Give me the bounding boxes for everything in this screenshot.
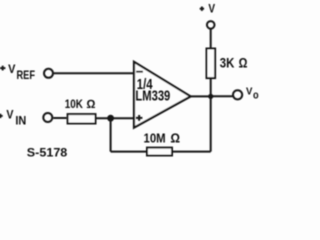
svg-text:Ω: Ω xyxy=(170,131,180,146)
label +VREF xyxy=(0,66,5,71)
op-amp U1 1/4 LM339 triangle xyxy=(134,62,191,128)
svg-text:S-5178: S-5178 xyxy=(27,147,68,160)
svg-text:REF: REF xyxy=(17,69,36,82)
wire output node to Vo xyxy=(211,95,233,97)
wire 3K to output node xyxy=(210,79,212,96)
wire bottom left segment xyxy=(111,151,146,153)
terminal +VIN circle xyxy=(43,113,52,122)
wire op-amp output xyxy=(191,95,211,97)
pin + plus mark xyxy=(136,115,143,121)
wire R 10K to non-inverting input xyxy=(97,117,135,119)
svg-text:V: V xyxy=(208,3,216,16)
resistor 3K body xyxy=(207,49,216,79)
value 10K ohm xyxy=(65,98,96,111)
junction output node xyxy=(208,94,213,99)
label +V supply xyxy=(200,7,204,11)
svg-text:V: V xyxy=(8,63,16,76)
value 3K ohm xyxy=(220,56,248,71)
node Vo terminal circle xyxy=(233,90,242,99)
resistor 10K body xyxy=(68,114,96,123)
label +VIN xyxy=(0,114,3,118)
label 1/4 xyxy=(137,76,153,92)
svg-text:LM339: LM339 xyxy=(135,87,170,103)
wire +V to R 3K xyxy=(210,30,212,49)
wire +VIN to R 10K xyxy=(53,117,66,119)
svg-text:10K: 10K xyxy=(65,98,83,111)
label LM339 xyxy=(135,87,170,103)
node +V terminal circle xyxy=(207,21,215,29)
value 10M ohm xyxy=(144,131,181,146)
junction + input node xyxy=(107,115,114,122)
svg-text:V: V xyxy=(246,86,253,98)
terminal +VREF circle xyxy=(44,69,53,78)
figure id S-5178 xyxy=(27,147,68,160)
label Vo xyxy=(246,86,253,98)
wire bottom right segment xyxy=(173,151,211,153)
svg-text:V: V xyxy=(6,109,13,122)
svg-text:3K: 3K xyxy=(220,56,235,71)
pin - minus mark xyxy=(136,71,143,73)
svg-text:o: o xyxy=(253,90,259,102)
svg-text:10M: 10M xyxy=(144,131,166,146)
wire left feedback up to + input node xyxy=(110,118,112,151)
svg-text:Ω: Ω xyxy=(239,56,248,71)
svg-text:IN: IN xyxy=(15,115,26,128)
resistor 10M body xyxy=(147,148,172,156)
wire +VREF to inverting input xyxy=(54,72,135,74)
wire output node down right side xyxy=(210,96,212,151)
svg-text:Ω: Ω xyxy=(86,98,96,111)
